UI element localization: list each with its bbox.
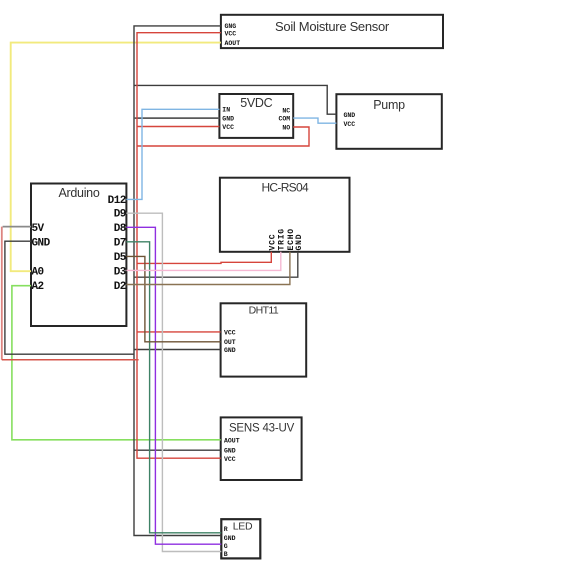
wire brown: arduino D5 to DHT11 OUT: [126, 256, 220, 341]
svg-text:GND: GND: [295, 234, 304, 251]
wire pink: arduino D3 to HC-RS04 TRIG: [126, 252, 280, 271]
wire black branch to DHT11 GND: [134, 349, 221, 351]
svg-text:GND: GND: [344, 112, 356, 119]
wire black branch to SENS GND: [134, 449, 221, 451]
svg-text:GND: GND: [224, 535, 236, 542]
svg-text:Pump: Pump: [373, 98, 405, 112]
svg-text:OUT: OUT: [224, 339, 236, 346]
svg-text:D12: D12: [108, 195, 126, 207]
svg-text:G: G: [224, 543, 228, 550]
wire red loop: 5VDC NO around bottom: [137, 127, 309, 146]
svg-text:COM: COM: [278, 116, 290, 123]
svg-text:NC: NC: [282, 107, 290, 114]
svg-text:VCC: VCC: [225, 31, 237, 38]
svg-text:D3: D3: [114, 267, 127, 279]
wire blue: 5VDC IN to arduino D12: [126, 109, 219, 199]
wire purple: arduino D8 to LED G: [126, 227, 221, 544]
svg-text:A2: A2: [32, 281, 44, 293]
svg-text:GNG: GNG: [225, 23, 237, 30]
svg-text:TRIG: TRIG: [278, 228, 287, 250]
svg-text:VCC: VCC: [344, 121, 356, 128]
svg-text:GND: GND: [224, 448, 236, 455]
module SENS 43-UV: [221, 417, 302, 480]
svg-text:VCC: VCC: [268, 234, 277, 251]
svg-text:SENS 43-UV: SENS 43-UV: [229, 423, 295, 435]
module Soil Moisture Sensor: [221, 15, 443, 48]
svg-text:B: B: [224, 551, 228, 558]
svg-text:D9: D9: [114, 209, 126, 221]
svg-text:VCC: VCC: [224, 329, 236, 336]
svg-text:D2: D2: [114, 281, 126, 293]
svg-text:GND: GND: [32, 237, 51, 249]
wire red chain: soil VCC down to SENS VCC: [137, 33, 221, 459]
wire green: arduino A2 to SENS AOUT: [12, 286, 221, 440]
svg-text:D8: D8: [114, 223, 127, 235]
module Pump: [336, 94, 441, 149]
module LED: [221, 519, 260, 558]
wire black branch to pump GND: [134, 85, 336, 114]
svg-text:AOUT: AOUT: [225, 40, 241, 47]
svg-text:IN: IN: [222, 106, 230, 113]
wire red branch to DHT11 VCC: [137, 331, 221, 333]
wire black GND chain: soil GNG down to LED GND: [134, 26, 221, 536]
svg-text:Arduino: Arduino: [59, 186, 100, 200]
svg-text:Soil Moisture Sensor: Soil Moisture Sensor: [275, 19, 390, 34]
svg-text:DHT11: DHT11: [249, 305, 279, 317]
module 5VDC relay: [219, 94, 293, 138]
wire blue: 5VDC COM to pump VCC: [293, 118, 336, 123]
svg-text:NO: NO: [282, 124, 290, 131]
wire red branch to 5VDC VCC: [137, 126, 219, 128]
svg-text:R: R: [224, 526, 228, 533]
svg-text:AOUT: AOUT: [224, 437, 240, 444]
wire gray branch to 5VDC GND: [134, 117, 219, 119]
wire black: arduino GND around left and bottom: [5, 241, 134, 354]
svg-text:5V: 5V: [32, 223, 45, 235]
module HC-RS04: [220, 178, 350, 252]
wire black branch to HC-RS04 GND: [134, 252, 298, 277]
svg-text:VCC: VCC: [224, 456, 236, 463]
svg-text:5VDC: 5VDC: [240, 96, 272, 110]
svg-text:HC-RS04: HC-RS04: [261, 181, 308, 195]
svg-text:GND: GND: [222, 115, 234, 122]
svg-text:D7: D7: [114, 237, 126, 249]
module DHT11: [221, 303, 307, 376]
wire yellow: soil AOUT to arduino A0: [11, 43, 221, 272]
wire teal: arduino D7 to LED R: [126, 242, 221, 533]
module Arduino: [31, 184, 126, 327]
svg-text:LED: LED: [233, 521, 253, 533]
svg-text:GND: GND: [224, 347, 236, 354]
wire red branch to HC-RS04 VCC: [137, 252, 271, 264]
wire olive brown: arduino D2 to HC-RS04 ECHO: [126, 252, 290, 285]
wire gray: arduino D9 to LED B: [126, 213, 221, 551]
wire red: arduino 5V around left and bottom: [1, 227, 3, 360]
svg-text:D5: D5: [114, 252, 127, 264]
wire gray stub: arduino 5V pin: [3, 226, 31, 228]
svg-text:VCC: VCC: [222, 124, 234, 131]
svg-text:A0: A0: [32, 267, 44, 279]
